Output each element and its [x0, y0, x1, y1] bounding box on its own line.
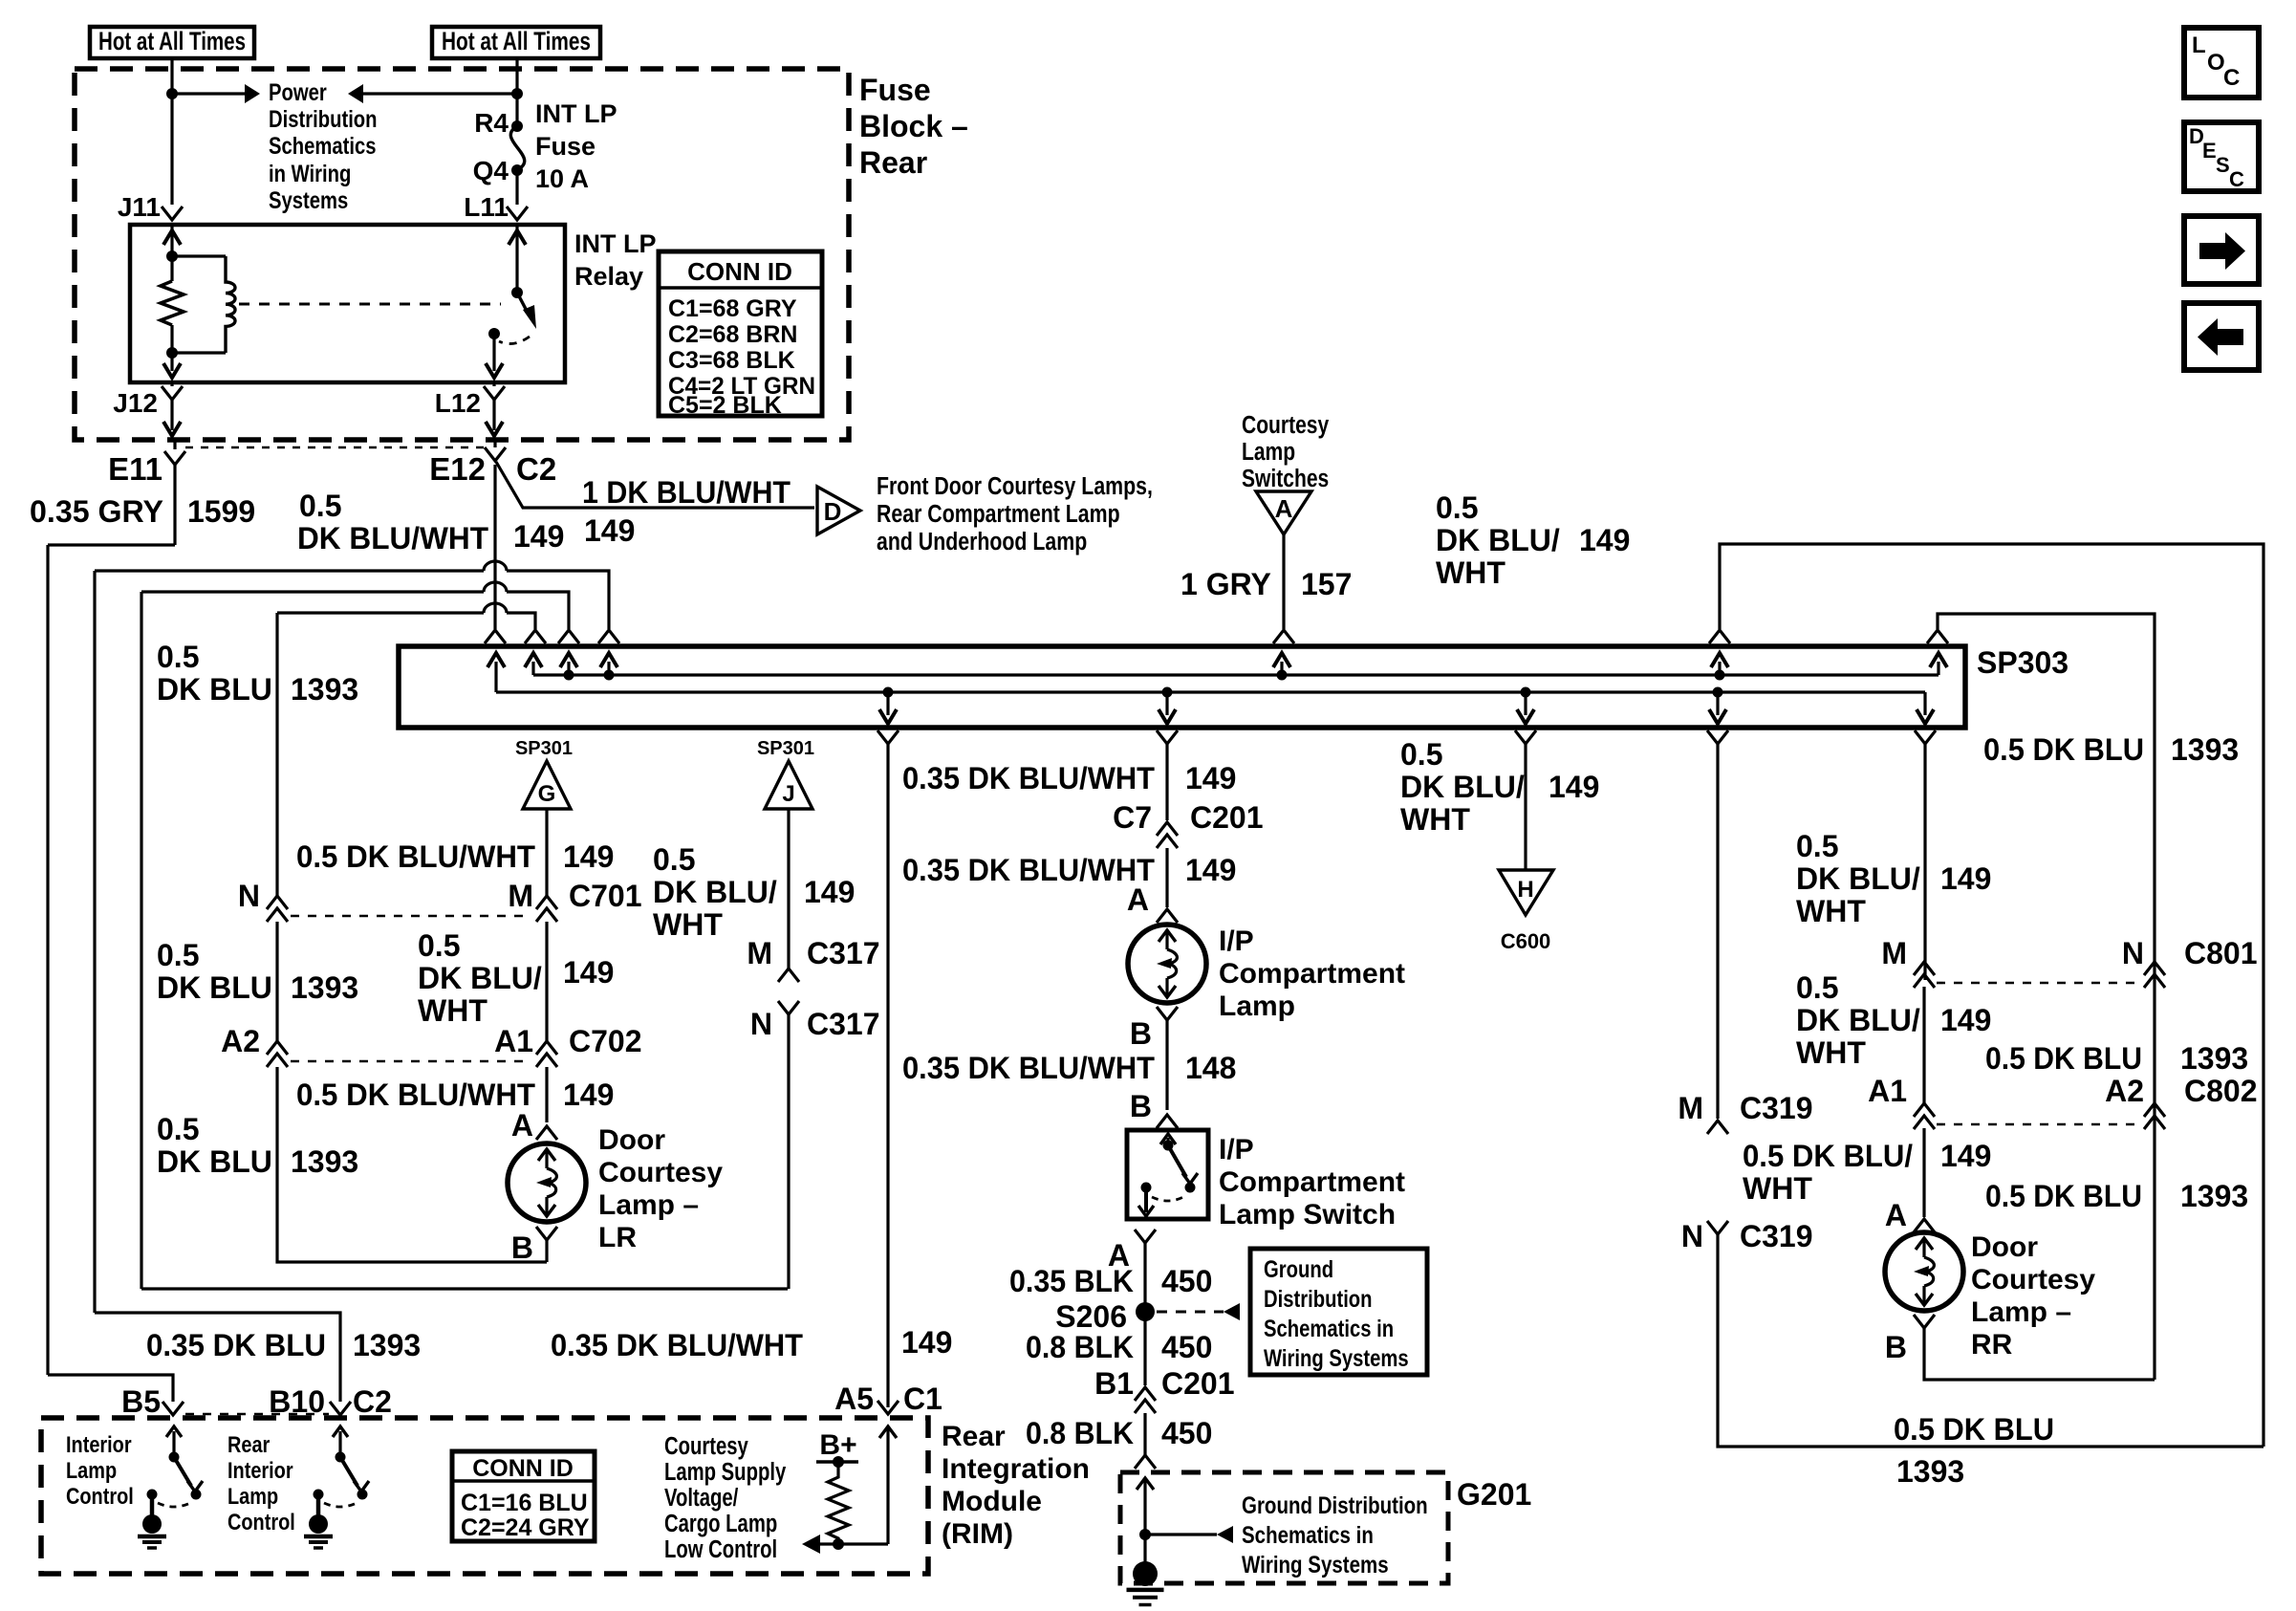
label 1599 — [187, 494, 255, 529]
dashed connector line C801 — [1937, 982, 2143, 985]
label Courtesy Lamp Supply Voltage — [664, 1432, 786, 1563]
bus arrow up x1341 — [1273, 653, 1290, 681]
svg-text:D: D — [824, 497, 842, 526]
label 0.5 DK BLU/WHT (G wire) — [296, 839, 535, 874]
connector C701 right half — [536, 896, 557, 922]
svg-text:I/P: I/P — [1219, 1134, 1254, 1165]
label C600 — [1501, 929, 1551, 953]
label 0.5 DK BLU 1393 (right of bus) — [1983, 732, 2239, 767]
svg-text:Control: Control — [66, 1483, 134, 1509]
svg-text:I/P: I/P — [1219, 925, 1254, 957]
wire S206 to C201 — [1143, 1312, 1146, 1385]
svg-text:DK BLU/: DK BLU/ — [653, 875, 777, 909]
B+ pull-up resistor — [816, 1456, 858, 1550]
svg-text:N: N — [238, 879, 260, 913]
label C317 lower — [807, 1007, 880, 1041]
off-page triangle A — [1256, 491, 1311, 534]
wire L12 down through fuse-block edge — [486, 400, 503, 436]
svg-text:0.5 DK BLU: 0.5 DK BLU — [1985, 1179, 2142, 1213]
svg-text:Courtesy: Courtesy — [664, 1432, 748, 1460]
svg-text:Interior: Interior — [66, 1431, 132, 1457]
chevron A5 — [877, 1401, 899, 1414]
svg-text:Wiring Systems: Wiring Systems — [1242, 1551, 1389, 1578]
relay node bottom-left — [166, 347, 178, 359]
svg-text:C801: C801 — [2184, 936, 2258, 970]
svg-text:E: E — [2202, 139, 2217, 163]
CONN ID box (RIM) — [452, 1451, 595, 1541]
svg-text:Lamp: Lamp — [1242, 439, 1295, 467]
svg-text:Ground Distribution: Ground Distribution — [1242, 1491, 1428, 1518]
note Ground Distribution (G201) — [1242, 1491, 1428, 1578]
svg-text:450: 450 — [1161, 1416, 1212, 1450]
svg-text:A5: A5 — [834, 1382, 874, 1416]
off-page triangle H — [1499, 870, 1553, 915]
lamp I/P Compartment Lamp — [1128, 925, 1206, 1003]
svg-text:0.5: 0.5 — [157, 938, 199, 972]
svg-text:Courtesy: Courtesy — [1971, 1264, 2095, 1295]
label 0.5 DK BLU/ WHT (x572 mid) — [418, 928, 542, 1028]
bus arrow down x929 — [879, 687, 897, 725]
label 0.5 DK BLU (x290 mid) — [157, 938, 272, 1005]
svg-text:B5: B5 — [121, 1384, 161, 1419]
svg-text:Cargo Lamp: Cargo Lamp — [664, 1510, 777, 1537]
interior lamp control switch — [147, 1426, 204, 1520]
svg-text:Integration: Integration — [942, 1453, 1090, 1485]
chevron into splice x560 — [525, 630, 546, 643]
chevron switch pin A — [1135, 1230, 1156, 1311]
label 0.35 DK BLU (B10 wire) — [146, 1328, 326, 1362]
dashed connector line C701 — [291, 915, 531, 918]
connector chevron E11 — [164, 438, 185, 465]
svg-text:B: B — [1130, 1089, 1152, 1123]
svg-text:1393: 1393 — [291, 1144, 358, 1179]
connector C201 lower inline — [1135, 1387, 1156, 1455]
svg-text:149: 149 — [584, 513, 635, 548]
svg-text:0.35 DK BLU/WHT: 0.35 DK BLU/WHT — [551, 1328, 803, 1362]
label 0.5 DK BLU (x290) — [157, 640, 272, 707]
INT LP relay box — [130, 225, 565, 382]
pin label C2 at E12 — [516, 451, 556, 487]
svg-text:C802: C802 — [2184, 1074, 2258, 1108]
wire from Hot box2 to fuse — [515, 58, 518, 126]
svg-text:C2: C2 — [516, 451, 556, 487]
svg-text:A1: A1 — [1868, 1074, 1907, 1108]
svg-text:Rear: Rear — [859, 145, 927, 180]
svg-text:DK BLU/: DK BLU/ — [1796, 861, 1920, 896]
wire 0.35 GRY 1599 from E11 — [48, 465, 175, 1375]
chevron B5 — [162, 1402, 184, 1415]
svg-text:A: A — [1127, 882, 1149, 917]
label 0.35 DK BLU/WHT (row1) — [902, 761, 1155, 795]
svg-text:0.5 DK BLU: 0.5 DK BLU — [1985, 1041, 2142, 1076]
label 0.8 BLK 450 (upper) — [1026, 1330, 1212, 1364]
connector chevron J12 — [162, 382, 183, 400]
svg-text:Courtesy: Courtesy — [598, 1157, 723, 1188]
svg-text:Ground: Ground — [1264, 1255, 1333, 1283]
svg-text:WHT: WHT — [1436, 555, 1505, 590]
svg-text:1393: 1393 — [353, 1328, 421, 1362]
locator icon LOC box — [2184, 28, 2259, 98]
chevron into splice x595 — [558, 630, 579, 643]
connector C801 right half — [2144, 962, 2165, 988]
svg-text:0.35 DK BLU: 0.35 DK BLU — [146, 1328, 326, 1362]
svg-text:Wiring Systems: Wiring Systems — [1264, 1344, 1409, 1372]
svg-text:DK BLU: DK BLU — [157, 1144, 272, 1179]
connector C201 inline — [1157, 822, 1178, 907]
chevron below bus x1596 — [1515, 730, 1536, 870]
Fuse Block - Rear dashed enclosure — [75, 69, 849, 440]
G201 ground wire — [1137, 1478, 1154, 1573]
relay resistor — [161, 256, 184, 353]
svg-text:A: A — [1885, 1198, 1907, 1232]
bus inner drain line B — [496, 690, 1925, 693]
wire x572 between C701 and C702 — [545, 922, 548, 1041]
svg-text:1393: 1393 — [291, 672, 358, 707]
connector C317 pin M — [778, 969, 799, 982]
pin label A (switch) — [1108, 1238, 1130, 1273]
svg-text:149: 149 — [1940, 861, 1991, 896]
svg-text:Rear: Rear — [942, 1421, 1006, 1452]
locator icon DESC box — [2184, 122, 2259, 191]
relay node top-left — [166, 250, 178, 262]
svg-text:DK BLU/: DK BLU/ — [1400, 770, 1525, 804]
svg-text:149: 149 — [563, 839, 614, 874]
label 149 (x572 mid) — [563, 955, 614, 990]
svg-text:S: S — [2216, 153, 2230, 177]
label 1 DK BLU/WHT — [582, 475, 791, 510]
pin label N (C701 left) — [238, 879, 260, 913]
svg-text:C1=16 BLU: C1=16 BLU — [461, 1490, 588, 1516]
label C319 upper — [1740, 1091, 1813, 1125]
off-page triangle D — [817, 487, 860, 534]
label 0.35 BLK 450 — [1009, 1264, 1212, 1298]
wire 149 from G to C701 — [545, 809, 548, 896]
svg-text:WHT: WHT — [1743, 1171, 1812, 1206]
svg-text:Hot at All Times: Hot at All Times — [98, 27, 246, 55]
pin label B10 — [269, 1384, 325, 1419]
relay actuation dashed link — [239, 303, 501, 306]
label 1393 (bottom right) — [1896, 1454, 1964, 1489]
label 0.8 BLK 450 (lower) — [1026, 1416, 1212, 1450]
pin label C7 — [1113, 800, 1152, 835]
label 0.35 GRY — [30, 494, 163, 529]
pin label A (lamp RR) — [1885, 1198, 1907, 1232]
ground symbol interior lamp control — [138, 1514, 166, 1548]
CONN ID box (fuse block) — [659, 251, 822, 419]
wire DK BLU branch x290 upper — [275, 613, 278, 896]
label INT LP Relay — [574, 229, 657, 291]
svg-text:(RIM): (RIM) — [942, 1518, 1013, 1550]
arrow to Power Distribution note (left) — [348, 84, 517, 103]
svg-text:SP303: SP303 — [1977, 645, 2069, 680]
svg-text:WHT: WHT — [1400, 802, 1470, 837]
svg-text:B: B — [511, 1230, 533, 1265]
svg-text:C5=2 BLK: C5=2 BLK — [668, 392, 782, 419]
svg-text:Hot at All Times: Hot at All Times — [442, 27, 591, 55]
label 0.35 DK BLU/WHT (row2) — [902, 853, 1155, 887]
svg-text:H: H — [1517, 877, 1533, 903]
branch tap 1 on wire 149 — [95, 561, 609, 629]
svg-text:M: M — [747, 936, 772, 970]
svg-text:0.5 DK BLU: 0.5 DK BLU — [1983, 732, 2144, 767]
note Power Distribution Schematics in Wiring Systems — [269, 78, 378, 214]
lamp Door Courtesy Lamp - LR — [508, 1143, 586, 1222]
svg-text:CONN ID: CONN ID — [472, 1455, 574, 1482]
svg-text:N: N — [1681, 1219, 1703, 1253]
svg-text:Lamp –: Lamp – — [1971, 1296, 2071, 1328]
label Rear Integration Module (RIM) — [942, 1421, 1090, 1550]
label 157 — [1301, 567, 1352, 601]
ground symbol G201 — [1127, 1561, 1164, 1605]
svg-text:M: M — [1881, 936, 1907, 970]
svg-text:0.5 DK BLU/: 0.5 DK BLU/ — [1743, 1139, 1913, 1173]
svg-text:C: C — [2229, 167, 2244, 191]
svg-text:149: 149 — [513, 519, 564, 554]
arrow to Power Distribution note (right) — [172, 84, 260, 103]
wire from Hot box1 to relay pin J11 — [170, 58, 173, 205]
svg-text:Systems: Systems — [269, 186, 348, 214]
svg-text:Front Door Courtesy Lamps,: Front Door Courtesy Lamps, — [877, 472, 1153, 501]
svg-text:1393: 1393 — [1896, 1454, 1964, 1489]
dashed connector line C702 — [291, 1060, 531, 1063]
wire DK BLU branch x148 — [140, 592, 142, 1289]
svg-text:0.5: 0.5 — [1436, 490, 1478, 525]
wire feed from right second — [1938, 614, 2155, 1380]
connector X E12 — [485, 438, 506, 461]
pin label A1 — [494, 1024, 533, 1058]
label I/P Compartment Lamp Switch — [1219, 1134, 1405, 1230]
wire x290 between C701 and C702 — [275, 922, 278, 1041]
fuse F INT LP 10A — [510, 120, 524, 205]
svg-text:WHT: WHT — [418, 993, 487, 1028]
label I/P Compartment Lamp — [1219, 925, 1405, 1022]
bus arrow down x1797 — [1709, 687, 1726, 725]
svg-text:C317: C317 — [807, 1007, 880, 1041]
svg-text:Switches: Switches — [1242, 466, 1329, 493]
svg-text:DK BLU/: DK BLU/ — [1796, 1003, 1920, 1037]
svg-text:1599: 1599 — [187, 494, 255, 529]
svg-text:B: B — [1885, 1330, 1907, 1364]
svg-text:C7: C7 — [1113, 800, 1152, 835]
label SP301 (G) — [515, 738, 573, 759]
svg-text:M: M — [1678, 1091, 1703, 1125]
svg-text:Schematics: Schematics — [269, 132, 376, 160]
connector C317 pin N — [778, 1001, 799, 1289]
label C319 lower — [1740, 1219, 1813, 1253]
svg-text:0.5: 0.5 — [157, 1112, 199, 1146]
bus arrow down x2014 — [1917, 692, 1934, 724]
label Rear Interior Lamp Control — [227, 1431, 295, 1535]
label 149 (G wire) — [563, 839, 614, 874]
svg-text:149: 149 — [563, 955, 614, 990]
svg-text:C: C — [2223, 65, 2240, 91]
pin label C2 (RIM) — [353, 1384, 392, 1419]
svg-text:E12: E12 — [429, 451, 486, 487]
splice SP303 bus rectangle — [399, 646, 1965, 728]
fuse value label INT LP Fuse 10 A — [535, 99, 617, 193]
svg-text:0.5: 0.5 — [157, 640, 199, 674]
chevron lamp RR pin B — [1914, 1315, 2155, 1380]
nav icon right arrow box — [2184, 216, 2259, 284]
svg-text:Rear Compartment Lamp: Rear Compartment Lamp — [877, 500, 1120, 529]
label Door Courtesy Lamp - LR — [598, 1124, 723, 1253]
pin label R4 — [474, 108, 509, 138]
branch wire to D arrow — [496, 462, 814, 508]
svg-text:0.35 DK BLU/WHT: 0.35 DK BLU/WHT — [902, 1051, 1155, 1085]
svg-text:Module: Module — [942, 1486, 1042, 1517]
svg-text:Voltage/: Voltage/ — [664, 1484, 739, 1512]
relay coil feed wire with up arrow — [163, 225, 181, 256]
svg-text:157: 157 — [1301, 567, 1352, 601]
connector chevron J11 — [162, 207, 183, 220]
svg-text:L11: L11 — [464, 192, 509, 222]
label 0.5 DK BLU/ WHT (J wire) — [653, 842, 777, 942]
svg-text:149: 149 — [563, 1078, 614, 1112]
svg-text:0.5: 0.5 — [299, 489, 341, 523]
svg-text:Lamp: Lamp — [1219, 991, 1295, 1022]
svg-text:1 GRY: 1 GRY — [1180, 567, 1271, 601]
svg-text:450: 450 — [1161, 1264, 1212, 1298]
svg-text:149: 149 — [1940, 1139, 1991, 1173]
svg-text:Fuse: Fuse — [859, 73, 931, 107]
svg-text:Distribution: Distribution — [1264, 1285, 1373, 1313]
label SP301 (J) — [757, 738, 814, 759]
connector row dashed line E11-E12 — [185, 446, 484, 449]
label Door Courtesy Lamp - RR — [1971, 1231, 2095, 1361]
label Interior Lamp Control — [66, 1431, 134, 1509]
Ground Distribution note box — [1250, 1249, 1427, 1375]
power feed box 2 (Hot at All Times) — [432, 27, 600, 58]
chevron into splice x637 — [598, 630, 619, 643]
label SP303 — [1977, 645, 2069, 680]
chevron lamp LR pin B — [536, 1227, 557, 1262]
svg-text:1393: 1393 — [2171, 732, 2239, 767]
svg-text:Interior: Interior — [227, 1457, 293, 1483]
label 0.5 DK BLU/ WHT 149 (H wire) — [1400, 737, 1599, 837]
svg-text:1393: 1393 — [2180, 1041, 2248, 1076]
label 1 GRY — [1180, 567, 1271, 601]
bus arrow down x1221 — [1159, 687, 1176, 725]
label 1393 (x290) — [291, 672, 358, 707]
svg-text:G: G — [538, 781, 556, 807]
connector chevron L12 — [484, 382, 505, 400]
svg-text:Distribution: Distribution — [269, 105, 378, 133]
connector C702 left half — [267, 1041, 288, 1067]
wire x290 down to lamp return — [277, 1067, 547, 1262]
label C701 — [569, 879, 642, 913]
chevron into splice x518 — [485, 630, 506, 643]
svg-text:0.5 DK BLU/WHT: 0.5 DK BLU/WHT — [296, 1078, 535, 1112]
svg-text:LR: LR — [598, 1222, 637, 1253]
cargo lamp low control arrow — [802, 1535, 838, 1554]
pin label M (C319) — [1678, 1091, 1703, 1125]
A5 input wire with arrow — [838, 1426, 897, 1544]
bus arrow up x558 — [525, 653, 542, 675]
ground block G201 dashed box — [1120, 1472, 1448, 1583]
pin label L12 — [435, 388, 481, 418]
pin label B5 — [121, 1384, 161, 1419]
svg-text:C701: C701 — [569, 879, 642, 913]
svg-text:149: 149 — [804, 875, 855, 909]
relay switch common wire with up arrow — [509, 225, 526, 293]
label C702 — [569, 1024, 642, 1058]
label 0.5 DK BLU 1393 (x2254 low) — [1985, 1179, 2248, 1213]
label 0.5 DK BLU/WHT (lamp LR) — [296, 1078, 535, 1112]
svg-text:DK BLU: DK BLU — [157, 672, 272, 707]
svg-text:C2=68 BRN: C2=68 BRN — [668, 321, 797, 348]
svg-text:Lamp: Lamp — [66, 1457, 117, 1483]
svg-text:C600: C600 — [1501, 929, 1551, 953]
svg-text:DK BLU/WHT: DK BLU/WHT — [297, 521, 488, 555]
svg-text:J: J — [782, 781, 794, 807]
svg-text:0.35 DK BLU/WHT: 0.35 DK BLU/WHT — [902, 853, 1155, 887]
label B+ — [819, 1429, 856, 1461]
ground symbol rear interior lamp control — [304, 1514, 333, 1548]
svg-text:149: 149 — [1185, 761, 1236, 795]
svg-text:B: B — [1130, 1016, 1152, 1051]
svg-text:0.35 BLK: 0.35 BLK — [1009, 1264, 1134, 1298]
label 1393 (B10 wire) — [353, 1328, 421, 1362]
G201 junction dot — [1139, 1529, 1151, 1540]
chevron below bus x1797 — [1707, 730, 1728, 1119]
pin label M (C801) — [1881, 936, 1907, 970]
svg-text:149: 149 — [1940, 1003, 1991, 1037]
svg-text:0.8 BLK: 0.8 BLK — [1026, 1416, 1134, 1450]
svg-text:Courtesy: Courtesy — [1242, 412, 1330, 440]
svg-text:0.5: 0.5 — [1796, 829, 1838, 863]
svg-text:Door: Door — [1971, 1231, 2038, 1263]
relay output wire left with down arrow — [163, 353, 181, 378]
label 149 under 1 DK BLU/WHT — [584, 513, 635, 548]
wire J12 down through fuse-block edge — [163, 400, 181, 436]
bus arrow down x1596 — [1517, 687, 1534, 725]
svg-text:Lamp Supply: Lamp Supply — [664, 1458, 786, 1486]
bus arrow up x2028 — [1930, 653, 1947, 675]
label 0.5 DK BLU/WHT (E12 wire) — [297, 489, 488, 555]
pin label N (C317) — [750, 1007, 772, 1041]
svg-text:Low Control: Low Control — [664, 1535, 777, 1563]
wire x572 C702 to lamp A — [545, 1067, 548, 1122]
svg-text:0.5: 0.5 — [1400, 737, 1442, 772]
svg-text:RR: RR — [1971, 1329, 2013, 1361]
label 0.5 DK BLU 1393 (x2254 mid) — [1985, 1041, 2248, 1076]
svg-text:A: A — [1275, 494, 1293, 523]
switch blade assembly — [1138, 1134, 1198, 1216]
chevron switch pin B — [1157, 1115, 1178, 1128]
svg-text:0.5: 0.5 — [1796, 970, 1838, 1005]
svg-text:0.35 GRY: 0.35 GRY — [30, 494, 163, 529]
node junction on wire J11 — [166, 88, 178, 99]
pin label B (lamp RR) — [1885, 1330, 1907, 1364]
lamp Door Courtesy Lamp - RR — [1885, 1232, 1963, 1311]
label 149 (J wire) — [804, 875, 855, 909]
label 0.5 DK BLU/ WHT (x2013 mid) — [1796, 970, 1991, 1070]
svg-text:149: 149 — [901, 1325, 952, 1360]
svg-text:1 DK BLU/WHT: 1 DK BLU/WHT — [582, 475, 791, 510]
chevron B10 — [330, 1402, 351, 1415]
svg-text:0.5: 0.5 — [653, 842, 695, 877]
svg-text:1393: 1393 — [2180, 1179, 2248, 1213]
wire x148 bottom run to C317 wire — [141, 1287, 788, 1290]
pin label B (lamp LR) — [511, 1230, 533, 1265]
svg-text:Schematics in: Schematics in — [1242, 1521, 1374, 1548]
svg-text:Control: Control — [227, 1509, 295, 1535]
relay switch pivot — [511, 287, 523, 298]
svg-text:Q4: Q4 — [473, 156, 509, 185]
G201 pointer to note — [1145, 1526, 1233, 1543]
svg-text:O: O — [2207, 50, 2225, 76]
svg-text:N: N — [2122, 936, 2144, 970]
